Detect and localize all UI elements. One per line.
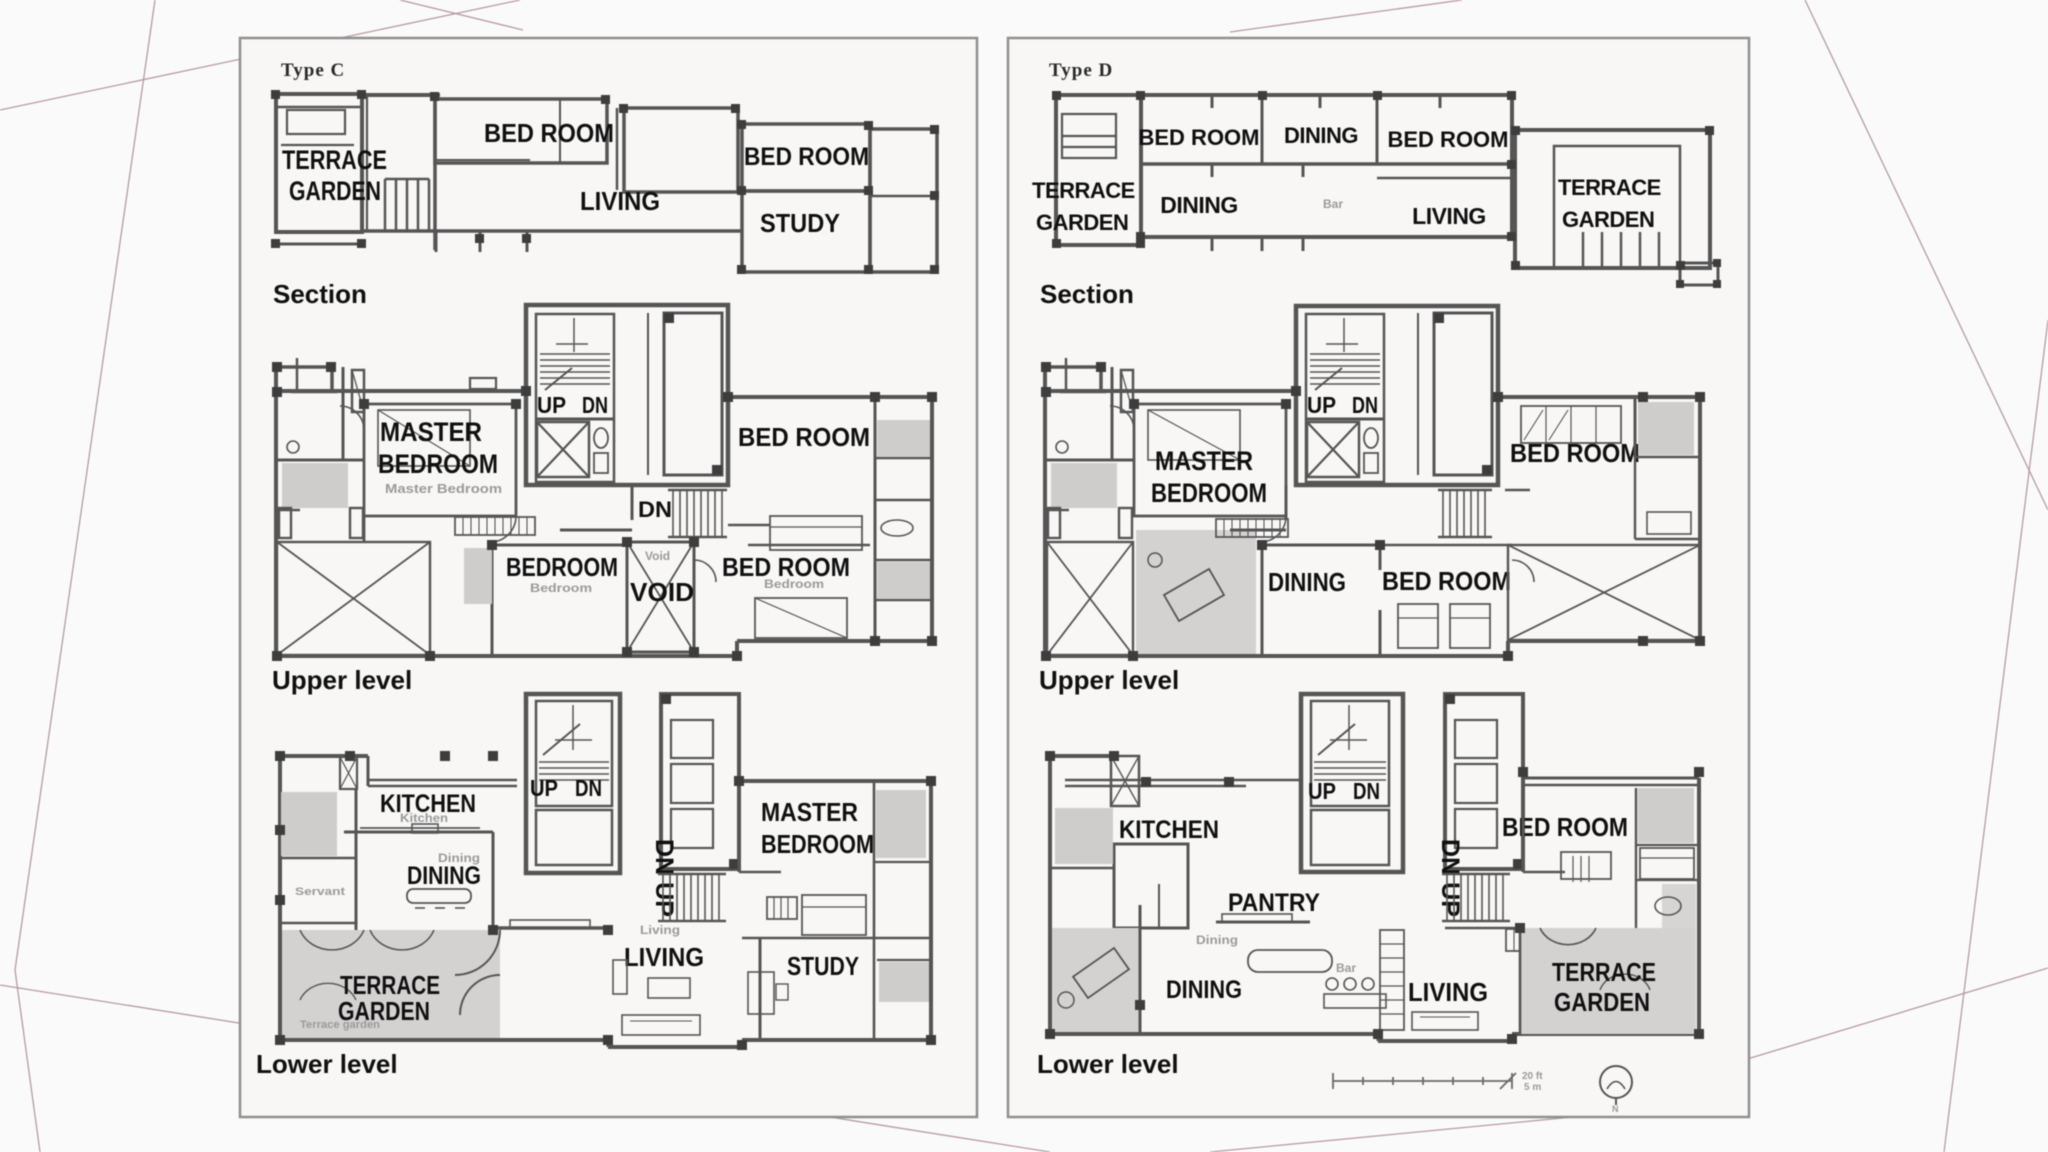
study top wall bbox=[742, 937, 931, 940]
bedroom2 lower line bbox=[1377, 177, 1512, 180]
svg-text:Bar: Bar bbox=[1336, 961, 1356, 975]
bg line bottom-right falling bbox=[1210, 1100, 1749, 1152]
left outer wall lowerC bbox=[278, 756, 282, 1040]
service boxes bbox=[671, 720, 713, 758]
terrace inner lines bbox=[1062, 135, 1116, 137]
svg-text:5 m: 5 m bbox=[1524, 1082, 1541, 1093]
columns lowerD bbox=[1045, 751, 1704, 1044]
study furniture bbox=[748, 972, 774, 1014]
bed furn lower d bbox=[1561, 852, 1611, 879]
bottom edge D bbox=[1045, 654, 1508, 658]
bedroom inner wall bbox=[559, 99, 561, 163]
svg-text:BEDROOM: BEDROOM bbox=[1151, 478, 1267, 508]
gray patch left top bbox=[281, 792, 337, 856]
bg line bottom-right rising bbox=[1744, 968, 2048, 1060]
bg line top wedge bbox=[400, 0, 523, 30]
wall under bedroom D bbox=[1505, 489, 1530, 492]
terrace-living wall d bbox=[1519, 928, 1522, 1034]
svg-text:TERRACE: TERRACE bbox=[1558, 175, 1661, 200]
dining table bbox=[407, 889, 471, 903]
svg-text:LIVING: LIVING bbox=[580, 186, 660, 216]
svg-text:Void: Void bbox=[645, 549, 670, 563]
hatch bench upper c bbox=[455, 517, 535, 535]
terrace garden gray patch d bbox=[1520, 928, 1696, 1034]
toilet fixtures in tower bbox=[594, 428, 608, 448]
master bedroom D walls bbox=[1134, 404, 1286, 516]
double wall right of bedroom bbox=[616, 108, 619, 190]
X box D bbox=[1307, 422, 1359, 477]
svg-text:KITCHEN: KITCHEN bbox=[1119, 816, 1219, 844]
big X left D bbox=[1047, 542, 1133, 655]
stair treads bbox=[540, 318, 610, 390]
big X right D bbox=[1508, 545, 1700, 640]
svg-text:TERRACE: TERRACE bbox=[1032, 178, 1135, 203]
gray patch left top d bbox=[1055, 808, 1113, 864]
terrace bottom lower line bbox=[276, 243, 362, 246]
bottom edge lowerC bbox=[280, 1038, 608, 1042]
svg-text:BED ROOM: BED ROOM bbox=[484, 118, 614, 148]
living strip hatch d bbox=[1380, 930, 1404, 1030]
svg-text:DN: DN bbox=[638, 497, 672, 522]
terrace top band bbox=[276, 106, 362, 109]
north symbol bbox=[1600, 1066, 1632, 1098]
mid tall block left wall bbox=[433, 95, 437, 250]
middle tall block bbox=[624, 108, 738, 192]
master bed lower c bbox=[802, 895, 866, 935]
left outer wall lower d bbox=[1048, 756, 1052, 1034]
living top line left part bbox=[436, 159, 530, 161]
svg-text:Section: Section bbox=[273, 279, 367, 309]
top-left porch walls bbox=[275, 365, 332, 369]
svg-text:DN: DN bbox=[582, 392, 608, 418]
hall wall lower d bbox=[1522, 785, 1525, 872]
stair tower outer bbox=[526, 694, 620, 873]
svg-text:TERRACE: TERRACE bbox=[282, 145, 387, 175]
svg-text:N: N bbox=[1612, 1104, 1619, 1114]
gray patch bedroom mid bbox=[464, 548, 492, 604]
stub walls below floor bbox=[526, 231, 529, 252]
svg-text:UP: UP bbox=[1307, 392, 1336, 418]
bed room C section room bbox=[435, 99, 607, 163]
bottom edge left bbox=[276, 654, 737, 658]
svg-text:DN: DN bbox=[1352, 392, 1378, 418]
bg line bottom-left shallow bbox=[0, 985, 1050, 1152]
svg-text:STUDY: STUDY bbox=[760, 208, 840, 238]
bed room top edge d bbox=[1522, 777, 1699, 780]
right terrace outer bbox=[1515, 130, 1710, 268]
treads lower d bbox=[1314, 705, 1386, 780]
door arcs D bbox=[1260, 516, 1286, 542]
kitchen room d bbox=[1114, 844, 1188, 928]
bg line top-left shallow bbox=[0, 0, 520, 110]
terrace inner top rect bbox=[287, 110, 345, 134]
svg-text:Kitchen: Kitchen bbox=[400, 811, 448, 825]
svg-text:Type C: Type C bbox=[281, 60, 345, 81]
columns upperC bbox=[272, 362, 937, 661]
svg-text:Servant: Servant bbox=[295, 886, 345, 898]
wall bedroom1/dining bbox=[1261, 95, 1264, 164]
svg-text:DN UP: DN UP bbox=[650, 839, 678, 917]
kitchen bottom counter bbox=[344, 831, 493, 834]
right outer wall D bbox=[1698, 397, 1702, 641]
top roof line left bbox=[362, 93, 440, 97]
right outer wall lowerC bbox=[929, 781, 933, 1040]
gray patch right lower bbox=[877, 562, 930, 599]
left gray furnished patch d bbox=[1052, 928, 1140, 1032]
small sofa right D bbox=[1647, 512, 1691, 534]
terrace garden block walls bbox=[276, 94, 362, 232]
elevator box lower d bbox=[1311, 810, 1389, 865]
dresser hatch master bbox=[767, 897, 797, 919]
dining room D walls bbox=[1261, 545, 1264, 656]
terrace inner rect bbox=[1062, 114, 1116, 158]
svg-text:DN: DN bbox=[575, 775, 602, 801]
svg-text:Living: Living bbox=[640, 923, 680, 937]
svg-text:PANTRY: PANTRY bbox=[1228, 889, 1320, 917]
bg line right upper bbox=[1805, 0, 2048, 510]
top edge left wing D bbox=[1044, 389, 1296, 393]
living furniture bbox=[648, 978, 690, 998]
columns lowerC bbox=[275, 751, 936, 1050]
hall wall bbox=[738, 781, 741, 872]
big X terrace below left bbox=[277, 542, 430, 655]
mid stubs bbox=[1211, 164, 1214, 177]
columns upperD bbox=[1041, 362, 1705, 661]
beds bottom d bbox=[1398, 604, 1438, 648]
right outer wall bbox=[930, 397, 934, 641]
elevator box inner bbox=[536, 810, 612, 865]
svg-text:UP: UP bbox=[530, 775, 558, 801]
master bedroom walls bbox=[364, 404, 516, 516]
service tower lower d bbox=[1445, 694, 1523, 869]
right rooms D bbox=[1634, 397, 1637, 457]
top edge right wing bbox=[728, 395, 932, 399]
bg line right steep bbox=[1944, 320, 2048, 1152]
svg-text:BED ROOM: BED ROOM bbox=[1382, 566, 1511, 596]
svg-text:GARDEN: GARDEN bbox=[289, 176, 381, 206]
bottom bedroom walls d bbox=[1379, 545, 1382, 570]
gray patch left bbox=[282, 463, 348, 508]
svg-text:BEDROOM: BEDROOM bbox=[506, 552, 618, 582]
bottom right small square bbox=[1680, 263, 1718, 285]
svg-text:BED ROOM: BED ROOM bbox=[738, 422, 870, 452]
top bump small rect bbox=[470, 378, 496, 389]
mid stairs treads bbox=[668, 490, 727, 537]
top edge left wing bbox=[275, 389, 526, 393]
treads D bbox=[1310, 318, 1380, 390]
svg-text:BED ROOM: BED ROOM bbox=[1502, 812, 1628, 842]
stair tower outer D bbox=[1296, 306, 1498, 485]
void box bbox=[627, 542, 694, 652]
bathroom patches right bbox=[876, 790, 926, 858]
svg-text:GARDEN: GARDEN bbox=[1562, 207, 1654, 232]
stair X box bbox=[537, 422, 589, 477]
svg-text:BED ROOM: BED ROOM bbox=[1139, 125, 1260, 150]
columns bbox=[271, 90, 939, 274]
living sofa d bbox=[1412, 1012, 1478, 1030]
dining right wall bbox=[492, 832, 495, 930]
left terrace block bbox=[1056, 95, 1141, 245]
mid stairs lower d bbox=[1442, 874, 1510, 921]
terrace plant arcs bbox=[300, 930, 364, 950]
svg-text:DN: DN bbox=[1353, 778, 1380, 804]
svg-text:DINING: DINING bbox=[1268, 567, 1346, 597]
svg-text:DINING: DINING bbox=[1160, 192, 1238, 218]
svg-text:Dining: Dining bbox=[1196, 933, 1238, 947]
bg polygonal line left steep bbox=[15, 0, 155, 1152]
top edge left rooms d bbox=[1048, 754, 1111, 758]
right terrace inner rect bbox=[1554, 146, 1680, 268]
bar stools bbox=[1326, 978, 1338, 990]
left outer wall bbox=[274, 367, 278, 656]
living-right connection wall bbox=[700, 191, 742, 194]
stair shaft lower d bbox=[1311, 701, 1389, 806]
right bed room rect bbox=[742, 124, 870, 191]
svg-text:VOID: VOID bbox=[630, 577, 694, 607]
bottom edge right bbox=[737, 639, 932, 643]
svg-text:DINING: DINING bbox=[1284, 123, 1358, 148]
bottom stubs bbox=[1211, 237, 1214, 251]
top stubs bbox=[1211, 95, 1214, 108]
terrace-living curved wall bbox=[455, 930, 500, 975]
right panel (Type D) bbox=[1008, 38, 1749, 1117]
terrace inner line bbox=[281, 144, 354, 146]
svg-text:Bedroom: Bedroom bbox=[764, 577, 824, 591]
right strip gray d bbox=[1662, 884, 1696, 928]
right tower bbox=[870, 129, 937, 272]
svg-text:BED ROOM: BED ROOM bbox=[744, 143, 869, 171]
svg-text:GARDEN: GARDEN bbox=[1554, 987, 1650, 1017]
svg-text:Bedroom: Bedroom bbox=[530, 581, 592, 595]
hatch bench upper d bbox=[1216, 519, 1288, 537]
svg-text:Type D: Type D bbox=[1049, 60, 1113, 81]
gray furnished area master D bbox=[1136, 530, 1256, 654]
top edge right wing D bbox=[1498, 395, 1700, 399]
wall dining/bedroom2 bbox=[1376, 95, 1379, 164]
mid stairs lower c bbox=[658, 874, 726, 921]
living-study divider bbox=[759, 938, 762, 1040]
svg-text:Upper level: Upper level bbox=[272, 665, 412, 695]
shaft mid wall bbox=[536, 418, 614, 421]
svg-text:Lower level: Lower level bbox=[256, 1049, 398, 1079]
section stair rails bbox=[385, 179, 429, 230]
scale bar bbox=[1333, 1073, 1516, 1089]
stair tower inner left shaft bbox=[536, 314, 614, 482]
svg-text:Upper level: Upper level bbox=[1039, 665, 1179, 695]
tower mid line bbox=[870, 195, 937, 198]
gray patch left D bbox=[1051, 463, 1117, 508]
gray patch right top bbox=[877, 420, 930, 457]
left rooms dividers d bbox=[1050, 867, 1114, 869]
svg-text:MASTER: MASTER bbox=[761, 797, 858, 827]
main band outer bbox=[1141, 95, 1512, 237]
door arcs bbox=[490, 516, 516, 542]
terrace garden gray patch bbox=[282, 930, 500, 1038]
svg-text:STUDY: STUDY bbox=[787, 951, 859, 981]
left outer wall D bbox=[1043, 367, 1047, 656]
stair treads lower c bbox=[539, 705, 609, 780]
svg-text:GARDEN: GARDEN bbox=[338, 996, 430, 1026]
bottom right bed bbox=[755, 598, 847, 638]
elevator D bbox=[1434, 313, 1492, 475]
svg-text:MASTER: MASTER bbox=[380, 417, 482, 447]
right stair bars bbox=[1583, 232, 1659, 268]
svg-text:DINING: DINING bbox=[1166, 976, 1242, 1004]
master left wall extension bbox=[363, 516, 366, 542]
svg-text:DINING: DINING bbox=[407, 862, 481, 890]
bottom edge lower d bbox=[1050, 1032, 1378, 1036]
stair shaft inner bbox=[536, 701, 612, 806]
svg-text:Master Bedroom: Master Bedroom bbox=[385, 481, 502, 496]
right service tower bbox=[661, 694, 739, 869]
columns D section bbox=[1052, 91, 1721, 288]
svg-text:BEDROOM: BEDROOM bbox=[761, 829, 874, 859]
porch top-left D bbox=[1044, 365, 1101, 369]
column X c bbox=[340, 757, 357, 789]
svg-text:UP: UP bbox=[537, 392, 566, 418]
toilet fixtures D bbox=[1364, 428, 1378, 448]
master bedroom top edge bbox=[739, 779, 931, 783]
svg-text:LIVING: LIVING bbox=[1412, 203, 1486, 229]
right outer wall lower d bbox=[1697, 778, 1701, 1034]
right rooms partition bbox=[874, 397, 877, 641]
corridor D bbox=[1285, 485, 1288, 520]
bg line top-right small bbox=[1230, 0, 1462, 32]
stair shaft D bbox=[1306, 314, 1384, 482]
svg-text:MASTER: MASTER bbox=[1155, 446, 1253, 476]
svg-text:UP: UP bbox=[1308, 778, 1336, 804]
svg-text:DN UP: DN UP bbox=[1436, 839, 1464, 917]
elevator shaft bbox=[664, 313, 722, 475]
svg-text:BED ROOM: BED ROOM bbox=[1388, 127, 1509, 152]
bedroom mid-bottom walls bbox=[491, 545, 494, 656]
shaft mid wall D bbox=[1306, 418, 1384, 421]
svg-text:LIVING: LIVING bbox=[1408, 977, 1488, 1007]
gray patch right top D bbox=[1638, 402, 1694, 455]
stair tower outer bbox=[526, 305, 728, 485]
svg-text:BEDROOM: BEDROOM bbox=[378, 449, 498, 479]
master bed furniture bbox=[378, 410, 470, 466]
column X d bbox=[1111, 756, 1139, 806]
kitchen band wall d bbox=[1065, 779, 1246, 782]
dining table lower d bbox=[1248, 950, 1332, 972]
svg-text:GARDEN: GARDEN bbox=[1036, 210, 1128, 235]
mid stairs D bbox=[1438, 490, 1492, 537]
wall between right bedrooms bbox=[728, 524, 770, 527]
long shelf wall above living bbox=[493, 926, 608, 930]
svg-text:TERRACE: TERRACE bbox=[1552, 957, 1656, 987]
garden steps hatch d bbox=[1506, 929, 1554, 951]
study room bbox=[742, 191, 870, 272]
top right bed D (headboard bars) bbox=[1521, 406, 1621, 443]
kitchen band wall c bbox=[368, 779, 517, 782]
svg-text:LIVING: LIVING bbox=[624, 942, 704, 972]
left panel (Type C) bbox=[240, 38, 977, 1117]
svg-text:Section: Section bbox=[1040, 279, 1134, 309]
svg-text:Lower level: Lower level bbox=[1037, 1049, 1179, 1079]
band mid floor line bbox=[1141, 162, 1512, 166]
stair tower outer lower d bbox=[1301, 694, 1403, 872]
svg-text:20 ft: 20 ft bbox=[1522, 1071, 1543, 1082]
svg-text:Bar: Bar bbox=[1323, 197, 1343, 211]
left rooms partition bbox=[342, 367, 345, 460]
top edge left rooms bbox=[278, 754, 368, 758]
master bed furn D bbox=[1148, 410, 1240, 460]
top right bedroom bed bbox=[770, 516, 862, 550]
corridor walls mid bbox=[631, 485, 634, 520]
pantry counter bbox=[1216, 921, 1310, 924]
left rooms D bbox=[1111, 367, 1114, 460]
left rooms dividers bbox=[355, 789, 358, 930]
living floor line bbox=[362, 229, 742, 233]
bath gray top right d bbox=[1638, 788, 1694, 843]
